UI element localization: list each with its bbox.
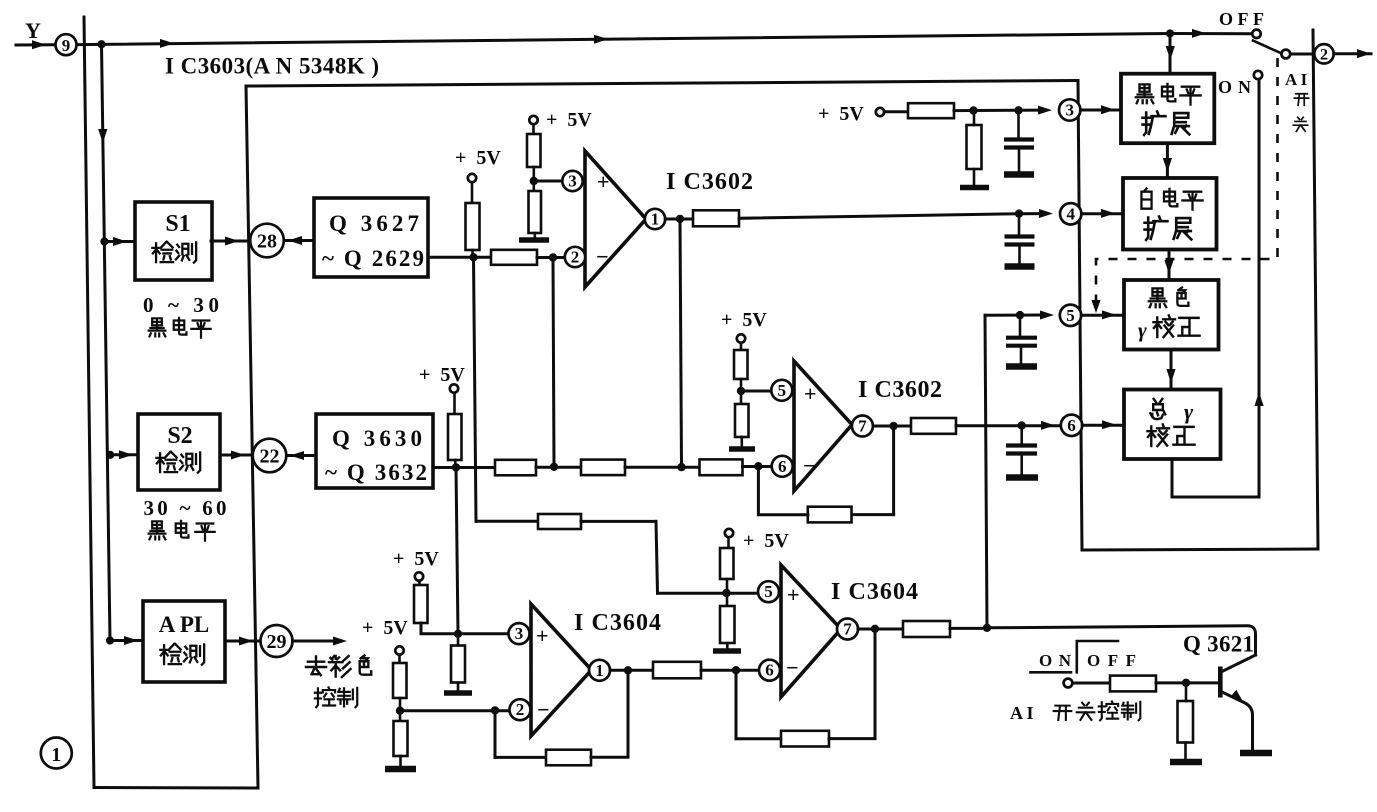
wire divider middle bbox=[726, 579, 729, 606]
svg-text:+ 5V: + 5V bbox=[419, 364, 465, 386]
terminal +5V circle bbox=[725, 529, 733, 537]
svg-text:28: 28 bbox=[257, 231, 277, 253]
svg-text:+: + bbox=[536, 623, 549, 648]
node junction C4 tap bbox=[1018, 421, 1026, 429]
svg-text:3: 3 bbox=[515, 624, 524, 643]
wire vertical from junction down to IC3604 pin3 row bbox=[456, 467, 458, 633]
block white level expand bbox=[1123, 178, 1217, 250]
svg-text:−: − bbox=[537, 697, 550, 722]
svg-text:~ Q 2629: ~ Q 2629 bbox=[322, 246, 424, 271]
svg-text:I C3602: I C3602 bbox=[858, 377, 942, 403]
transistor Q2 base bar bbox=[1218, 667, 1223, 698]
arrow into pin 4 bbox=[1039, 209, 1053, 218]
wire Q3630 output row start bbox=[433, 466, 495, 469]
wire long from output resistor to pin 4 row bbox=[739, 214, 1042, 219]
wire IC3603 box outer right edge bbox=[1313, 30, 1318, 549]
svg-text:3: 3 bbox=[568, 172, 577, 191]
switch ON contact circle bbox=[1254, 71, 1262, 79]
svg-text:OFF: OFF bbox=[1087, 651, 1136, 670]
wire +5V to resistor bbox=[884, 110, 908, 113]
wire feedback op-amp2 down bbox=[892, 426, 895, 515]
arrow on Y input wire bbox=[32, 40, 46, 49]
ground bar below divider bbox=[729, 446, 755, 452]
svg-text:−: − bbox=[803, 453, 816, 478]
svg-text:S2: S2 bbox=[167, 423, 192, 449]
transistor Q2 collector diagonal bbox=[1222, 655, 1256, 672]
wire IC3603 box left edge bbox=[246, 86, 258, 788]
wire link row from Q3627 branch to IC3604 pin 5 bbox=[476, 520, 538, 523]
node junction base divider bbox=[1182, 679, 1190, 687]
node divider junction bbox=[530, 177, 538, 185]
wire arm to pin 2 bbox=[1290, 53, 1315, 56]
node junction C1 tap bbox=[1014, 106, 1022, 114]
arrow on top wire middle bbox=[594, 35, 608, 44]
wire output junction down to middle row bbox=[680, 219, 682, 467]
wire vertical from pin2 node down to middle row bbox=[553, 258, 554, 467]
block black gamma correction bbox=[1124, 280, 1219, 350]
wire junction to resistor and ground bbox=[1184, 683, 1187, 759]
resistor R17 vertical upper divider bbox=[393, 663, 407, 698]
wire branch to S2 detect bbox=[110, 453, 138, 456]
resistor R20 horizontal feedback op-amp3 bbox=[546, 750, 591, 766]
node output junction op-amp2 bbox=[889, 422, 897, 430]
dashed AI switch control path bbox=[1096, 58, 1278, 305]
svg-text:A I: A I bbox=[1010, 703, 1034, 723]
pin 1 output circle of op-amp U3 bbox=[589, 660, 610, 681]
op-amp U4 IC3604 triangle bbox=[781, 565, 841, 697]
wire resistor to row junction bbox=[454, 460, 457, 467]
wire divider junction to pin 2 bbox=[400, 709, 509, 712]
svg-text:6: 6 bbox=[778, 457, 787, 476]
node divider junction bbox=[737, 387, 745, 395]
wire +5V to resistor bbox=[418, 581, 421, 585]
terminal +5V circle bbox=[395, 646, 403, 654]
ground bar below R28 bbox=[1170, 759, 1202, 766]
ground bar below R16 bbox=[444, 690, 472, 696]
label qu cai se (decolor) bbox=[306, 656, 326, 675]
svg-text:5: 5 bbox=[1066, 306, 1075, 325]
wire +5V to resistor bbox=[740, 343, 743, 350]
wire pin3 row bbox=[954, 109, 1044, 113]
resistor R4 vertical lower divider bbox=[529, 191, 542, 233]
svg-text:5: 5 bbox=[764, 582, 773, 601]
wire pin 6 to total gamma block bbox=[1082, 424, 1124, 427]
node output junction op-amp4 bbox=[871, 625, 879, 633]
ground bar below R26 bbox=[960, 185, 989, 191]
svg-text:Q 3621: Q 3621 bbox=[1183, 632, 1254, 657]
resistor R12 vertical lower divider bbox=[735, 404, 749, 437]
svg-text:2: 2 bbox=[571, 248, 580, 267]
pin 5 circle of op-amp U2 bbox=[771, 380, 792, 401]
svg-text:29: 29 bbox=[267, 631, 287, 653]
svg-text:+ 5V: + 5V bbox=[393, 548, 439, 570]
capacitor C3 bbox=[1019, 315, 1022, 335]
wire feedback op-amp4 right segment and up bbox=[829, 629, 875, 739]
node junction below +5V resistor bbox=[452, 463, 460, 471]
wire resistor corner to pin3 row bbox=[421, 623, 458, 634]
wire AI line vertical up to pin5 row of IC3603 bbox=[985, 315, 987, 628]
capacitor C1 bbox=[1017, 110, 1020, 137]
svg-text:1: 1 bbox=[51, 744, 61, 766]
label kong zhi (control) bbox=[315, 687, 335, 707]
wire pin 3 to black level expand block bbox=[1080, 109, 1121, 112]
arrow down on left distribution vertical bbox=[98, 129, 107, 143]
wire black gamma down to total gamma bbox=[1170, 350, 1173, 390]
pin 5 of IC3603 right bbox=[1060, 305, 1081, 326]
wire between resistors second bbox=[625, 466, 700, 469]
block S1 detect bbox=[135, 202, 212, 280]
wire vertical from Q3627 output junction down to link row bbox=[474, 257, 477, 521]
svg-text:I C3603(A N 5348K ): I C3603(A N 5348K ) bbox=[165, 54, 379, 79]
wire long left vertical from Y area to bottom edge bbox=[84, 17, 94, 788]
wire APL to pin 29 bbox=[225, 640, 260, 643]
wire Q3627 block to pin 28 bbox=[284, 239, 314, 242]
arrow on top wire before OFF contact bbox=[1192, 29, 1206, 38]
arrow up on ON feed line bbox=[1254, 392, 1263, 406]
resistor R11 vertical upper divider bbox=[734, 350, 748, 379]
pin 6 circle of op-amp U2 bbox=[772, 456, 793, 477]
resistor R8 horizontal middle row second bbox=[581, 460, 625, 476]
resistor R23 horizontal at op-amp4 output bbox=[903, 621, 950, 637]
svg-text:3: 3 bbox=[1065, 101, 1074, 120]
svg-text:I C3602: I C3602 bbox=[666, 169, 753, 195]
svg-text:+: + bbox=[804, 381, 817, 406]
node divider junction bbox=[396, 707, 404, 715]
wire Q3627 output row bbox=[428, 256, 491, 259]
pin 1 of IC3603 (bottom left) bbox=[41, 738, 72, 769]
svg-text:+ 5V: + 5V bbox=[818, 103, 864, 125]
wire pin 4 junction and capacitor C2 bbox=[1015, 209, 1023, 217]
terminal +5V circle bbox=[415, 572, 423, 580]
wire feedback op-amp4 down from pin6 node bbox=[735, 670, 738, 739]
svg-text:2: 2 bbox=[516, 700, 525, 719]
svg-text:+ 5V: + 5V bbox=[743, 530, 789, 552]
terminal circle AI switch control input bbox=[1064, 679, 1073, 688]
block total gamma correction bbox=[1124, 390, 1221, 460]
resistor R19 horizontal at op-amp3 output bbox=[653, 662, 701, 679]
wire feedback op-amp3 right segment and up bbox=[591, 670, 628, 757]
wire branch to APL detect bbox=[110, 639, 143, 642]
ground bar below divider bbox=[713, 648, 741, 654]
pin 1 output circle of op-amp U1 bbox=[645, 209, 665, 229]
svg-text:+: + bbox=[787, 582, 800, 607]
pin 22 of IC3603 bbox=[253, 439, 287, 473]
node junction from op-amp1 output vertical bbox=[677, 463, 685, 471]
wire +5V to resistor bbox=[471, 183, 474, 204]
terminal +5V circle bbox=[450, 384, 458, 392]
resistor R14 horizontal feedback op-amp2 bbox=[808, 507, 852, 523]
wire divider junction to pin 3 bbox=[534, 180, 562, 183]
resistor R15 vertical bbox=[414, 585, 428, 623]
svg-text:7: 7 bbox=[843, 620, 852, 639]
pin 9 of IC3603 bbox=[56, 34, 77, 55]
wire resistor to junction bbox=[471, 250, 474, 257]
node junction Q3627 output bbox=[469, 253, 477, 261]
wire feedback op-amp2 to pin6 node bbox=[758, 466, 807, 515]
arrow into pin 6 bbox=[1041, 421, 1055, 430]
wire Q3630 block to pin 22 bbox=[287, 454, 317, 457]
node divider junction pin 5 bbox=[722, 589, 730, 597]
wire IC3603 box top edge bbox=[246, 81, 1078, 87]
resistor R28 vertical to ground bbox=[1178, 701, 1194, 743]
wire junction to pin 5 bbox=[741, 390, 772, 393]
resistor R27 horizontal base bbox=[1110, 676, 1156, 692]
pin 2 circle of op-amp U1 bbox=[565, 247, 585, 267]
wire bottom edge of loop bbox=[94, 786, 258, 790]
pin 28 of IC3603 bbox=[250, 224, 284, 258]
terminal +5V circle bbox=[529, 116, 537, 124]
wire AI line to Q3621 collector bbox=[987, 626, 1256, 655]
wire S2 to pin 22 bbox=[220, 454, 253, 457]
wire op-amp4 output to AI switch line bbox=[950, 627, 987, 630]
block Q3627-Q2629 bbox=[314, 198, 428, 277]
wire op-amp4 output bbox=[858, 628, 903, 631]
resistor R13 horizontal at op-amp2 output bbox=[911, 418, 956, 434]
pin 29 of IC3603 bbox=[261, 625, 293, 657]
wire Y input top horizontal bbox=[16, 34, 1253, 46]
capacitor C4 bbox=[1020, 426, 1023, 444]
wire divider middle bbox=[399, 698, 402, 721]
terminal +5V circle bbox=[468, 174, 476, 182]
wire op-amp1 output bbox=[665, 218, 693, 221]
wire control input to resistor bbox=[1073, 682, 1111, 685]
arrow into pin 5 bbox=[1040, 311, 1054, 320]
wire divider to ground bbox=[399, 756, 402, 765]
svg-text:1: 1 bbox=[651, 210, 660, 229]
svg-text:I C3604: I C3604 bbox=[831, 579, 918, 605]
wire op-amp3 output to op-amp4 pin 6 bbox=[701, 669, 759, 672]
op-amp U1 IC3602 triangle bbox=[585, 151, 646, 287]
svg-text:~ Q 3632: ~ Q 3632 bbox=[325, 460, 427, 485]
wire +5V to resistor bbox=[727, 538, 730, 549]
ground bar thick below R18 bbox=[385, 766, 416, 773]
resistor R2 horizontal to pin 2 bbox=[491, 250, 537, 265]
wire link row right part bbox=[581, 520, 656, 523]
wire output arrow right bbox=[1334, 52, 1371, 55]
wire divider middle bbox=[740, 379, 743, 404]
wire op-amp3 output bbox=[610, 669, 653, 672]
wire IC3603 box right inner edge bbox=[1078, 81, 1082, 551]
resistor R26 vertical to ground bbox=[967, 125, 982, 169]
wire link row into pin 5 junction bbox=[658, 592, 759, 595]
wire white level expand down to black gamma bbox=[1168, 250, 1171, 281]
svg-text:I C3604: I C3604 bbox=[574, 610, 661, 636]
wire pin 29 decolor control output bbox=[293, 640, 341, 643]
svg-text:6: 6 bbox=[765, 661, 774, 680]
pin 6 of IC3603 right bbox=[1061, 415, 1082, 436]
resistor R24 horizontal feedback op-amp4 bbox=[781, 731, 829, 747]
wire op-amp2 output bbox=[873, 425, 911, 428]
svg-text:22: 22 bbox=[260, 446, 280, 468]
wire link row corner down to op-amp4 pin5 row bbox=[656, 521, 658, 593]
node output junction bbox=[676, 215, 684, 223]
wire between resistors bbox=[536, 466, 581, 469]
switch arm AI bbox=[1253, 41, 1281, 54]
svg-text:+ 5V: + 5V bbox=[721, 309, 767, 331]
wire feedback op-amp4 bottom left segment bbox=[736, 737, 781, 740]
arrow on top wire after junction bbox=[160, 39, 174, 48]
wire to op-amp2 pin 6 bbox=[743, 465, 773, 468]
wire resistor to op-amp pin 2 bbox=[537, 256, 565, 259]
wire divider to ground bbox=[533, 233, 536, 237]
svg-text:+: + bbox=[597, 169, 610, 194]
wire IC3603 box bottom right edge bbox=[1082, 549, 1318, 550]
wire divider to ground bbox=[740, 437, 743, 446]
wire pin 6 row bbox=[956, 424, 1062, 427]
pin 3 circle of op-amp U3 bbox=[509, 623, 530, 644]
pin 7 output circle of op-amp U4 bbox=[837, 619, 858, 640]
svg-text:A I: A I bbox=[1285, 70, 1308, 89]
resistor R21 vertical upper divider bbox=[720, 548, 734, 579]
pin 7 output circle of op-amp U2 bbox=[852, 416, 873, 437]
svg-text:6: 6 bbox=[1067, 416, 1076, 435]
svg-text:1: 1 bbox=[595, 661, 604, 680]
node junction C3 tap bbox=[1016, 311, 1024, 319]
terminal +5V circle bbox=[737, 334, 745, 342]
node junction AI line bbox=[983, 624, 991, 632]
resistor R6 vertical bbox=[448, 414, 462, 460]
node junction feedback at pin 6 of U4 bbox=[732, 666, 740, 674]
wire top branch down into black level expand bbox=[1169, 34, 1172, 75]
ground bar below emitter bbox=[1240, 750, 1272, 757]
node junction feedback at pin 2 bbox=[491, 706, 499, 714]
pin 2 of IC3603 output bbox=[1314, 44, 1333, 63]
pin 4 of IC3603 right bbox=[1060, 203, 1081, 224]
terminal +5V circle bbox=[876, 108, 884, 116]
node junction feedback at pin 6 bbox=[754, 462, 762, 470]
resistor R5 horizontal at op-amp1 output bbox=[693, 210, 739, 226]
svg-text:γ: γ bbox=[1184, 399, 1194, 424]
ground bar below divider bbox=[519, 237, 549, 243]
switch arm contact circle bbox=[1281, 50, 1290, 59]
arrow down end of dashed path bbox=[1091, 300, 1100, 313]
wire feedback op-amp3 bottom left segment bbox=[495, 756, 546, 759]
wire +5V to resistor bbox=[453, 393, 456, 414]
pin 3 of IC3603 right bbox=[1059, 99, 1080, 120]
block S2 detect bbox=[138, 414, 220, 490]
resistor R9 horizontal middle row third bbox=[700, 459, 743, 475]
wire pin 5 row from AI line corner bbox=[985, 314, 1045, 317]
wire total gamma output down right and up to ON contact bbox=[1172, 80, 1259, 498]
wire divider to ground bbox=[726, 643, 729, 648]
svg-text:2: 2 bbox=[1320, 47, 1328, 64]
pin 3 circle of op-amp U1 bbox=[562, 171, 582, 191]
wire feedback op-amp2 left segment bbox=[852, 513, 894, 516]
svg-text:+ 5V: + 5V bbox=[362, 617, 408, 639]
block black level expand bbox=[1121, 74, 1214, 144]
op-amp U3 IC3604 triangle bbox=[531, 604, 592, 736]
wire S1 to pin 28 bbox=[211, 240, 251, 243]
svg-text:7: 7 bbox=[858, 417, 867, 436]
wire pin 4 to white level expand block bbox=[1081, 212, 1123, 215]
resistor R16 vertical to ground bbox=[451, 646, 465, 683]
svg-text:+ 5V: + 5V bbox=[455, 147, 501, 169]
svg-text:OFF: OFF bbox=[1219, 9, 1264, 29]
svg-text:+ 5V: + 5V bbox=[546, 109, 592, 131]
pin 2 circle of op-amp U3 bbox=[510, 699, 531, 720]
resistor R10 horizontal link row bbox=[538, 514, 581, 529]
svg-text:A PL: A PL bbox=[159, 612, 209, 637]
svg-text:9: 9 bbox=[62, 36, 71, 55]
svg-text:−: − bbox=[596, 244, 609, 269]
op-amp U2 IC3602 triangle bbox=[794, 361, 852, 491]
wire feedback op-amp3 down from pin2 node bbox=[494, 710, 497, 757]
node junction top wire to black-level-expand branch bbox=[1166, 29, 1174, 37]
wire pin 5 to black gamma block bbox=[1081, 314, 1124, 317]
wire junction down to resistor and ground bbox=[457, 634, 460, 690]
transistor Q2 emitter with arrow bbox=[1222, 692, 1253, 750]
resistor R25 horizontal pin3 row bbox=[908, 103, 954, 118]
block APL detect bbox=[143, 601, 225, 682]
wire resistor to base bbox=[1156, 681, 1218, 684]
resistor R7 horizontal middle row first bbox=[495, 460, 536, 476]
switch OFF contact circle bbox=[1252, 30, 1260, 38]
svg-text:5: 5 bbox=[778, 381, 787, 400]
svg-text:4: 4 bbox=[1066, 204, 1075, 223]
resistor R3 vertical upper divider bbox=[527, 134, 541, 167]
node junction from pin2 vertical bbox=[550, 463, 558, 471]
node junction of Y wire and left branch bbox=[97, 40, 105, 48]
wire left distribution vertical (line B) bbox=[102, 44, 111, 641]
pin 6 circle of op-amp U4 bbox=[759, 660, 780, 681]
svg-text:Y: Y bbox=[25, 18, 41, 43]
block Q3630-Q3632 bbox=[316, 414, 433, 488]
resistor R1 vertical bbox=[466, 203, 480, 250]
node junction pin3 row bbox=[454, 630, 462, 638]
wire branch to S1 detect bbox=[104, 240, 134, 243]
arrow into pin 3 bbox=[1038, 106, 1052, 115]
wire +5V to divider bbox=[398, 655, 401, 663]
svg-text:S1: S1 bbox=[165, 211, 190, 237]
node junction R26 tap bbox=[969, 106, 977, 114]
svg-text:γ: γ bbox=[1138, 318, 1147, 342]
resistor R18 vertical lower divider bbox=[394, 721, 408, 756]
pin 5 circle of op-amp U4 bbox=[758, 581, 779, 602]
wire divider middle bbox=[532, 167, 535, 191]
wire junction to pin 3 bbox=[458, 632, 508, 635]
wire R26 stubs bbox=[973, 111, 976, 185]
wire +5V down bbox=[532, 125, 535, 135]
svg-text:−: − bbox=[786, 655, 799, 680]
resistor R22 vertical lower divider bbox=[720, 606, 735, 643]
node junction feedback tap bbox=[549, 253, 557, 261]
wire black level expand to white level expand bbox=[1166, 143, 1169, 178]
node output junction op-amp3 bbox=[624, 666, 632, 674]
